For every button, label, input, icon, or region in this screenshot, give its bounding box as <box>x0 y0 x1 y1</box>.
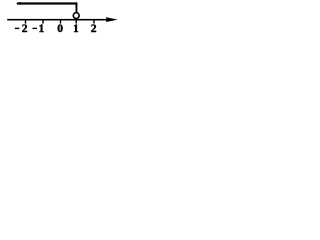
svg-text:2: 2 <box>91 22 97 35</box>
tick 0 <box>60 20 61 24</box>
ray left arrowhead <box>16 2 21 5</box>
svg-text:1: 1 <box>73 22 79 35</box>
svg-text:0: 0 <box>57 22 63 35</box>
svg-text:2: 2 <box>22 22 28 35</box>
tick 1 <box>76 20 77 24</box>
tick -1 <box>42 20 43 24</box>
ray corner drop <box>76 2 78 13</box>
svg-text:1: 1 <box>39 22 45 35</box>
tick -2 <box>25 20 26 24</box>
number line axis <box>7 19 108 21</box>
open circle at 1 <box>73 13 79 19</box>
solution ray (x&lt;1) top bar <box>17 2 77 4</box>
tick 2 <box>93 20 94 24</box>
axis right arrowhead <box>106 17 118 22</box>
